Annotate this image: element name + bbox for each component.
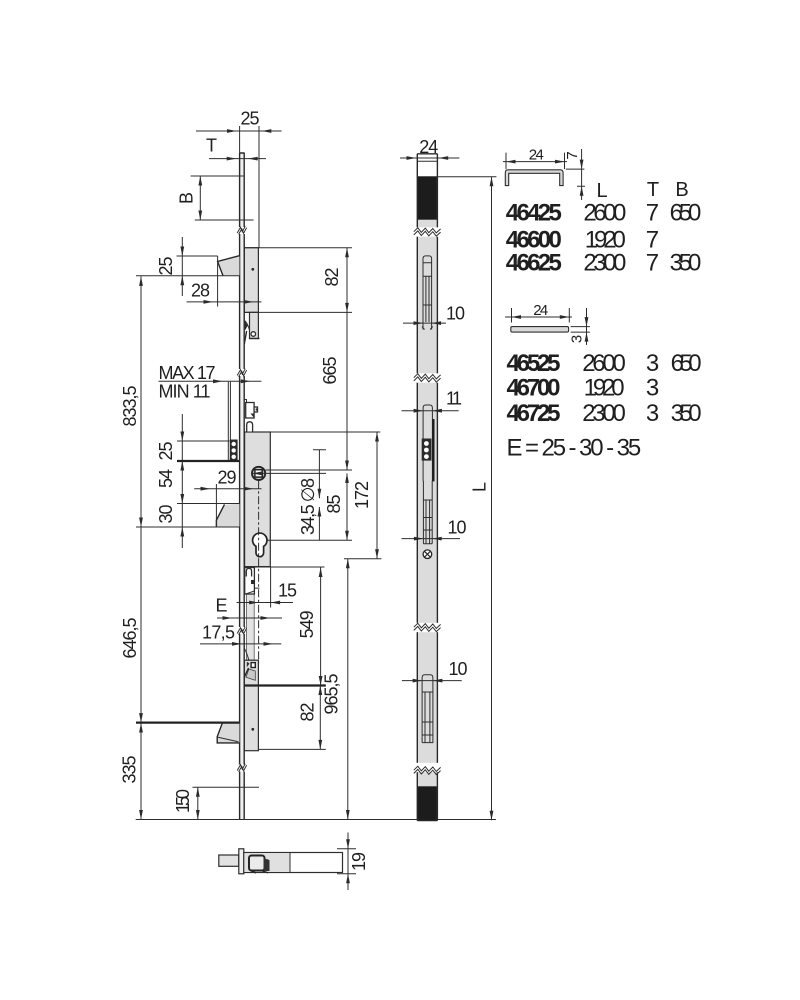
svg-text:82: 82 xyxy=(297,703,317,722)
svg-text:650: 650 xyxy=(671,350,702,377)
connecting rod strip xyxy=(246,567,254,660)
line bottom hook top thick xyxy=(136,721,239,723)
rail slot 4 xyxy=(422,675,433,743)
rail top black end xyxy=(418,176,437,219)
svg-text:665: 665 xyxy=(320,357,340,385)
svg-text:19: 19 xyxy=(349,852,369,871)
line hook bottom reference xyxy=(136,526,239,528)
follower circle xyxy=(252,467,265,480)
tick 82 bottom top thick xyxy=(244,684,325,686)
svg-text:2600: 2600 xyxy=(583,199,626,226)
svg-text:1920: 1920 xyxy=(584,374,625,401)
faceplate break mark 2 xyxy=(237,369,246,377)
centerline cylinder axis xyxy=(258,481,260,664)
top case latch curve detail xyxy=(245,321,250,331)
dim 3 flat profile xyxy=(571,308,590,345)
bottom view case body xyxy=(244,853,343,873)
rail break 1 xyxy=(414,227,442,236)
follower square xyxy=(255,470,262,477)
rail fixing screw xyxy=(423,550,432,559)
dim 17,5 xyxy=(200,643,281,645)
roller chain side view xyxy=(230,440,238,462)
rail edges xyxy=(417,154,437,821)
svg-text:46625: 46625 xyxy=(506,250,562,277)
svg-text:30: 30 xyxy=(156,505,176,524)
dim 10 slot1 xyxy=(403,322,446,324)
svg-text:L: L xyxy=(469,482,489,492)
tick case bottom xyxy=(244,566,324,568)
svg-text:B: B xyxy=(176,192,196,204)
svg-text:25: 25 xyxy=(156,442,176,461)
dim 29 xyxy=(194,484,261,527)
upper latch detail above main case xyxy=(245,400,247,405)
faceplate break mark 1 xyxy=(237,226,246,234)
dim 34,5 dia8 xyxy=(313,450,326,541)
svg-text:549: 549 xyxy=(297,610,317,638)
svg-text:965,5: 965,5 xyxy=(322,674,342,715)
dim 15 xyxy=(237,567,293,608)
svg-text:350: 350 xyxy=(671,400,702,427)
svg-text:646,5: 646,5 xyxy=(120,618,140,659)
svg-text:46700: 46700 xyxy=(507,374,561,401)
bottom view follower box xyxy=(249,856,265,871)
adjust rod double line xyxy=(228,382,230,461)
svg-text:7: 7 xyxy=(646,250,659,277)
rail break 2 xyxy=(414,373,442,382)
rail break 4 xyxy=(414,763,442,775)
faceplate side view xyxy=(240,153,245,820)
svg-text:46425: 46425 xyxy=(506,199,562,226)
dim 549 xyxy=(320,568,322,686)
mid latch detail below main case xyxy=(245,568,255,595)
faceplate break mark 4 xyxy=(237,764,246,772)
svg-text:24: 24 xyxy=(529,147,544,164)
dim 82 bottom xyxy=(258,686,325,750)
svg-text:7: 7 xyxy=(646,199,659,226)
rail slot 1 xyxy=(422,256,433,330)
dim E xyxy=(217,617,282,619)
dim 30 xyxy=(180,527,184,537)
dim 150 xyxy=(193,787,260,819)
top case latch streak xyxy=(244,331,246,344)
svg-text:650: 650 xyxy=(670,199,702,226)
svg-text:10: 10 xyxy=(448,517,467,537)
rail slot 3 xyxy=(423,481,432,544)
baseline bottom xyxy=(136,819,496,821)
svg-text:46525: 46525 xyxy=(507,350,561,377)
bottom view latch piece xyxy=(264,858,270,871)
top case rivet xyxy=(251,268,254,271)
dim 172 xyxy=(270,432,381,559)
dim B xyxy=(191,176,254,220)
svg-text:46725: 46725 xyxy=(507,400,561,427)
svg-text:24: 24 xyxy=(419,137,438,157)
cylinder hole euro profile xyxy=(253,533,267,557)
bottom aux lock case xyxy=(244,660,258,751)
dim 82 top xyxy=(244,248,352,313)
svg-text:172: 172 xyxy=(352,481,372,509)
svg-text:2300: 2300 xyxy=(582,400,626,427)
dim 11 slot2 xyxy=(402,410,459,412)
dim L xyxy=(437,177,496,821)
top deadbolt hook xyxy=(218,256,240,276)
svg-text:3: 3 xyxy=(568,335,585,343)
rail break 3 xyxy=(414,623,442,632)
main lock case xyxy=(245,432,271,567)
svg-text:2300: 2300 xyxy=(583,250,626,277)
bottom view assembly xyxy=(219,849,343,874)
dim 24 flat profile xyxy=(505,308,572,323)
faceplate break mark 3 xyxy=(237,627,246,635)
rail bottom black end xyxy=(418,786,437,820)
svg-text:7: 7 xyxy=(564,151,581,159)
arch slot above main case xyxy=(247,422,253,432)
svg-text:82: 82 xyxy=(322,268,342,287)
svg-text:T: T xyxy=(647,179,659,201)
dim 28 xyxy=(187,256,262,307)
bottom aux case latch detail xyxy=(244,649,249,661)
dim 7 U profile xyxy=(566,149,585,200)
mid deadbolt hook xyxy=(216,504,239,527)
svg-text:11: 11 xyxy=(446,389,462,409)
svg-text:28: 28 xyxy=(191,281,210,301)
svg-text:335: 335 xyxy=(119,756,139,784)
dim 19 xyxy=(337,833,356,891)
svg-text:10: 10 xyxy=(446,303,465,323)
svg-text:150: 150 xyxy=(173,789,193,813)
dim 85 xyxy=(267,473,352,540)
svg-text:B: B xyxy=(675,179,688,201)
bottom view spindle pin xyxy=(219,855,239,866)
svg-text:34,5 ∅8: 34,5 ∅8 xyxy=(298,478,318,535)
svg-text:3: 3 xyxy=(646,350,659,377)
svg-text:25: 25 xyxy=(241,109,260,129)
svg-text:10: 10 xyxy=(449,659,468,679)
top case latch circle xyxy=(251,332,256,337)
svg-text:2600: 2600 xyxy=(582,350,626,377)
svg-text:T: T xyxy=(206,136,217,156)
line hook top reference xyxy=(136,275,239,277)
top aux case lower extension xyxy=(250,312,259,338)
svg-text:15: 15 xyxy=(278,581,297,601)
svg-text:350: 350 xyxy=(670,250,702,277)
svg-text:3: 3 xyxy=(646,400,659,427)
svg-text:3: 3 xyxy=(646,374,659,401)
svg-text:54: 54 xyxy=(156,469,176,488)
dim 335 xyxy=(139,723,143,733)
U profile icon xyxy=(505,170,563,186)
flat profile icon xyxy=(511,327,569,333)
leader dia8 xyxy=(252,472,326,474)
svg-text:E: E xyxy=(215,596,227,616)
dim 10 slot3 xyxy=(402,538,461,540)
dim 25 mid xyxy=(177,414,230,548)
dim 25 top xyxy=(196,126,282,248)
front view rail body xyxy=(417,154,437,821)
svg-text:MAX 17: MAX 17 xyxy=(159,363,216,383)
svg-text:E = 25 - 30 - 35: E = 25 - 30 - 35 xyxy=(507,435,642,462)
tick 54 top thick xyxy=(177,460,239,462)
dim 965,5 xyxy=(347,559,349,820)
dim 54 xyxy=(177,503,239,505)
dim 665 xyxy=(266,312,353,470)
rail slot 2 adjustable xyxy=(422,405,434,481)
top case bottom cap xyxy=(250,338,260,340)
svg-text:24: 24 xyxy=(533,302,548,319)
bottom case rivet xyxy=(251,728,254,731)
dim 646,5 xyxy=(139,713,143,723)
svg-text:25: 25 xyxy=(156,257,176,276)
dim 833,5 xyxy=(140,276,142,819)
dim 25 hook xyxy=(177,237,218,296)
bottom deadbolt hook xyxy=(217,723,239,743)
svg-text:17,5: 17,5 xyxy=(202,623,235,643)
bottom view faceplate flange xyxy=(239,849,244,874)
svg-text:29: 29 xyxy=(218,468,237,488)
svg-text:MIN 11: MIN 11 xyxy=(159,382,211,402)
top aux lock case xyxy=(244,248,258,313)
dim 10 slot4 xyxy=(402,680,462,682)
dim T xyxy=(209,158,266,160)
svg-text:85: 85 xyxy=(324,495,344,514)
svg-text:833,5: 833,5 xyxy=(120,386,140,427)
dim 24 rail xyxy=(400,157,459,159)
dim 24 U profile xyxy=(503,153,567,170)
